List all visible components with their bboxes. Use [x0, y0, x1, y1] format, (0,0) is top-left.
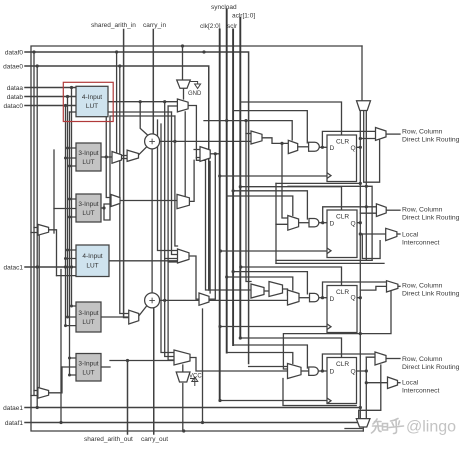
svg-text:LUT: LUT [86, 263, 98, 270]
node datac1/x37 [36, 265, 39, 268]
wire LUT input vertical x69.5 [69, 112, 71, 375]
node syncload y120.6 [225, 119, 228, 122]
wire LUT E out [101, 316, 129, 318]
watermark zhihu logo strokes [372, 419, 404, 434]
wire vertical x185 gate2 to mux c [184, 112, 186, 197]
red highlight box [63, 82, 113, 121]
node LUTB out/x106 [105, 155, 108, 158]
wire gate2 input2 [168, 105, 177, 107]
wire vertical x61 [60, 270, 62, 423]
wire bundle taps to mux d [165, 259, 178, 263]
node aclr y338 [239, 336, 242, 339]
mux mid2 [199, 293, 209, 305]
wire mux e top feed [182, 365, 184, 372]
wire LUT E input stubs [66, 306, 77, 326]
wire bundle v5 x174.9 [175, 116, 178, 246]
wire aclr to FF3 CLR [241, 267, 342, 286]
wire sclr [232, 30, 234, 346]
svg-text:Direct Link Routing: Direct Link Routing [402, 137, 460, 144]
VCC arrow symbol [190, 377, 198, 386]
mux a (pre-adder1 1) [112, 152, 122, 164]
node lutF in3 [68, 374, 71, 377]
svg-text:sclr: sclr [227, 23, 238, 30]
node muxmid1out/x215.3 [214, 152, 217, 155]
node lutE in1 [70, 305, 73, 308]
wire mux b out diagonal to adder1 [139, 147, 148, 156]
svg-text:D: D [330, 145, 335, 152]
wire M4 loop to B1 [359, 365, 381, 419]
out mux L2 [386, 228, 397, 240]
wire dataa [25, 87, 76, 89]
svg-text:Local: Local [402, 380, 419, 387]
node dataf1/x202.5 [201, 421, 204, 424]
wire LUT D out [109, 260, 178, 262]
wire mux d out [189, 256, 199, 299]
wire mux1a out to mux1b [262, 138, 288, 144]
wire mux3c to and3 [299, 297, 310, 299]
node lutB in1 [66, 147, 69, 150]
wire FF4 Q to L4 [366, 382, 387, 384]
wire and4 bypass up to M4 [322, 354, 375, 371]
node clk ff3 [218, 325, 221, 328]
wire dataf1 [25, 422, 358, 424]
wire shared arith to mux e [110, 360, 174, 362]
flip-flop FF1 [327, 135, 357, 182]
wire mux3b to mux3c [283, 289, 288, 295]
svg-text:CLR: CLR [336, 361, 349, 368]
LUT A 4-input [76, 86, 108, 116]
wire mux mid2 out [209, 154, 215, 299]
svg-text:@lingo: @lingo [406, 419, 456, 436]
node dataf0/x33 [32, 50, 35, 53]
svg-text:Direct Link Routing: Direct Link Routing [402, 215, 460, 222]
node m3 loop a [359, 332, 362, 335]
svg-text:carry_in: carry_in [143, 22, 167, 29]
and3 [310, 293, 319, 301]
wire bundle v1 x161.9 [161, 124, 174, 353]
svg-text:CLR: CLR [336, 139, 349, 146]
wire syncload [226, 10, 228, 353]
svg-text:dataf0: dataf0 [5, 50, 23, 57]
svg-text:Q: Q [351, 295, 356, 302]
wire vertical x54 [53, 150, 55, 233]
wire x276 down to FF2 mux [276, 183, 288, 224]
and2 [309, 219, 319, 227]
node dataf0/x116.6 [115, 50, 118, 53]
out mux M4 [375, 352, 386, 365]
wire mux g inputs [31, 391, 38, 396]
wire gnd mux out [183, 88, 185, 99]
wire and1 to FF1 D [320, 146, 328, 148]
wire M2 out [386, 209, 400, 211]
wire vertical x210.1 [209, 162, 211, 294]
wire left feedback vertical x37 [36, 66, 38, 408]
wire LUT A out [108, 101, 177, 103]
wire mux c out up [189, 160, 194, 201]
GND mux [177, 80, 191, 88]
node wrap1 a [359, 182, 362, 185]
node ff2 q [359, 221, 362, 224]
wire T1 right leg long vertical B upper [365, 111, 367, 261]
node and1 out [321, 146, 324, 149]
wire wrap2 under FF1 [288, 186, 372, 260]
node lutC in1 [68, 198, 71, 201]
wire LUT input vertical x67.5 [67, 97, 69, 318]
wire dataf0 stub into mux4 [249, 366, 288, 368]
wire and4 to FF4 D [319, 370, 327, 372]
node sclr y190.8 [232, 189, 235, 192]
wire M3 out [398, 285, 400, 287]
node lutB in3 [68, 165, 71, 168]
node ff3 q loop [359, 296, 362, 299]
bottom mux B1 [356, 419, 370, 427]
mux 3c [288, 290, 300, 305]
node aclr y267 [239, 265, 242, 268]
node adder2out/x164.7 [163, 299, 166, 302]
wire top rail down into T1 [361, 46, 363, 101]
wire datab [25, 96, 76, 98]
svg-text:dataf1: dataf1 [5, 420, 23, 427]
svg-text:CLR: CLR [336, 289, 349, 296]
node wrap x366 [365, 185, 368, 188]
wire FF4 wrap under [283, 379, 356, 406]
node lutE in3 [64, 324, 67, 327]
wire LUT C out branch up to bundle [104, 116, 175, 220]
wire LUT B out branch down to mux c0 [106, 157, 111, 198]
wire x276 down to FF3 [275, 224, 277, 263]
svg-text:syncload: syncload [211, 4, 237, 11]
wire and3 to FF3 D [319, 297, 327, 299]
svg-text:Local: Local [402, 232, 419, 239]
wire mux i out diagonal to adder2 [139, 306, 147, 317]
wire FF1 Q to M1 [357, 139, 376, 148]
mux mid1 [200, 147, 210, 162]
wire FF3 Q to M3 [357, 286, 387, 297]
LUT D 4-input [76, 245, 109, 277]
wire FF4 Q to M4 [357, 357, 375, 371]
node and2 out [321, 221, 324, 224]
wire datac0 [25, 105, 76, 107]
LUT F 3-input [76, 354, 101, 382]
wire L2 loop under FF2 [362, 234, 380, 259]
wire mux mid1 out [210, 153, 220, 155]
svg-text:LUT: LUT [86, 103, 98, 110]
svg-text:dataa: dataa [7, 85, 24, 92]
node LUTC out/x104 [102, 206, 105, 209]
node datac1/x71.5 [70, 265, 73, 268]
svg-text:CLR: CLR [336, 214, 349, 221]
svg-text:Row, Column: Row, Column [402, 356, 443, 363]
bottom labels [84, 436, 168, 443]
wire vcc chain down [182, 384, 184, 432]
mux 1b [288, 140, 297, 153]
node dataf1/x60 [59, 421, 62, 424]
node clk ff2 [219, 249, 222, 252]
svg-text:D: D [330, 369, 335, 376]
node shared arith out tap [126, 359, 129, 362]
node and3 out [321, 296, 324, 299]
svg-text:Q: Q [351, 145, 356, 152]
svg-text:Direct Link Routing: Direct Link Routing [402, 364, 460, 371]
node clk ff1 [218, 174, 221, 177]
wire carry_in [152, 30, 154, 134]
wire syncload branch FF4 to mux4 [227, 353, 293, 364]
mux e [174, 350, 190, 365]
wire L4 out [398, 382, 401, 384]
adder 1 [145, 134, 160, 149]
node and4 out [321, 369, 324, 372]
wire mux mid1 inputs [194, 150, 200, 158]
wire LUT F input stubs [62, 358, 76, 375]
wire clk to FF4 [220, 400, 327, 402]
wire dataf0 [25, 52, 249, 364]
wire clk to FF3 [220, 326, 327, 328]
wire LUT input vertical x65.5 [65, 106, 67, 326]
and4 [309, 367, 319, 375]
svg-text:aclr[1:0]: aclr[1:0] [232, 13, 255, 20]
wire aclr to FF1 CLR [240, 102, 341, 135]
wire datae1 [25, 407, 360, 409]
wire T1 mid leg down [364, 111, 380, 183]
wire feedback vertical x116.6 [117, 52, 128, 156]
svg-text:Interconnect: Interconnect [402, 388, 440, 395]
node datac1/x65.5 [64, 265, 67, 268]
node syncload y277 [225, 275, 228, 278]
wire B1 spur left [345, 428, 362, 430]
wire sclr branch FF2 to and2 [233, 191, 307, 219]
svg-text:carry_out: carry_out [141, 436, 168, 443]
out mux M1 [376, 128, 387, 141]
wire and1 bypass up to M1 [322, 131, 375, 147]
wire clk to FF1 [220, 175, 327, 177]
wire carry_out [153, 308, 155, 434]
wire syncload branch FF1 to mux1b [204, 121, 292, 140]
svg-text:LUT: LUT [82, 159, 94, 166]
left labels [3, 50, 23, 428]
mux 4 [288, 364, 302, 379]
out mux L4 [388, 377, 398, 389]
mux d [178, 249, 190, 263]
node lutF in1 [68, 357, 71, 360]
wire LUT F out [101, 366, 110, 368]
wire datae0 [25, 66, 209, 290]
wire mux a to mux b [122, 158, 128, 160]
mux c [177, 194, 189, 208]
node lutAout/x140.2 [139, 100, 142, 103]
wire bundle v4 x171.5 [172, 112, 178, 255]
node dataa/x71.5 [70, 86, 73, 89]
svg-text:Row, Column: Row, Column [402, 129, 443, 136]
mux h (feedback select top-left) [38, 224, 49, 235]
right labels [402, 129, 460, 395]
top mux T1 [357, 101, 371, 111]
wire sclr branch FF1 to and1 [233, 111, 307, 143]
wire FF1 wrap under [276, 182, 360, 184]
node ff1 q up [359, 137, 362, 140]
flip-flop FF3 [327, 286, 357, 333]
mux 1a [251, 131, 262, 144]
mux 3a [251, 284, 264, 298]
wire left feedback vertical x39 [38, 235, 40, 387]
wire sclr branch FF4 to and4 [233, 345, 307, 368]
svg-text:Interconnect: Interconnect [402, 240, 440, 247]
wire mux1b to and1 [298, 146, 309, 148]
LUT E 3-input [76, 302, 101, 332]
node toprail/x182.5 [181, 44, 184, 47]
wire B1 out to bottom rail [362, 427, 364, 431]
wire adder1 sum out [160, 140, 251, 142]
mux c0 (LUT C select) [111, 195, 120, 207]
wire sclr branch FF3 to and3 [233, 272, 307, 294]
node dataf0 y120.6 [244, 119, 247, 122]
wire M1 out [386, 133, 400, 135]
node lutB in2 [64, 157, 67, 160]
mux b (pre-adder1 2) [127, 150, 138, 161]
wire aclr [239, 18, 241, 338]
svg-text:datae0: datae0 [3, 64, 23, 71]
wire LUT B out [101, 156, 112, 158]
node m2 tap [365, 205, 368, 208]
wire clk to FF2 [220, 250, 327, 252]
svg-text:4-Input: 4-Input [82, 253, 102, 260]
wire vertical x202.5 [202, 309, 204, 423]
wire bundle v0 x158.7 [158, 120, 178, 251]
wire carry chain adder1 to adder2 [151, 149, 153, 293]
wire dataf0 vertical x246 [246, 121, 251, 282]
svg-text:Q: Q [351, 221, 356, 228]
node mux1a out x282 [280, 142, 283, 145]
wire select vertical x282 down to FF2 mux [282, 143, 288, 218]
wire mux c0 out to mux c [120, 200, 177, 202]
LUT C 3-input [76, 194, 101, 222]
node l2 tap [359, 232, 362, 235]
svg-text:datac0: datac0 [3, 103, 23, 110]
wire LUT B out branch up to bundle [106, 112, 171, 157]
node datae0/x37 [36, 64, 39, 67]
wire syncload branch FF3 to mux3c [227, 277, 293, 290]
wire M3 loop under FF3 [283, 289, 391, 369]
node bottomrail x183 [182, 429, 185, 432]
node lutE in2 [66, 316, 69, 319]
wire LUT C input stubs [54, 199, 76, 217]
wire mux3a to mux3b [264, 290, 269, 292]
wire aclr to FF2 CLR [240, 187, 341, 210]
svg-text:VCC: VCC [189, 374, 202, 380]
wire left feedback vertical x34 [33, 52, 35, 395]
wire M4 out [386, 358, 400, 360]
wire datac1 [25, 266, 76, 268]
mux 3b [269, 282, 283, 297]
wire aclr to FF4 CLR [240, 338, 341, 358]
svg-text:datae1: datae1 [3, 405, 23, 412]
svg-text:D: D [330, 221, 335, 228]
svg-text:4-Input: 4-Input [82, 94, 102, 101]
svg-text:GND: GND [188, 91, 202, 97]
wire mux1a top input [246, 133, 251, 135]
node gate2in/x164.7 [163, 100, 166, 103]
wire LUT C out into mux c0 [101, 204, 111, 208]
node adder1out/x174.9 [173, 140, 176, 143]
wire and2 to FF2 D [319, 222, 327, 224]
wire mux g out [49, 367, 62, 393]
node datae0/x119.8 [118, 64, 121, 67]
svg-text:clk[2:0]: clk[2:0] [200, 23, 221, 30]
svg-text:LUT: LUT [82, 210, 94, 217]
wire outer feedback loop top/left/bottom [31, 46, 363, 431]
wire mux h inputs [31, 228, 38, 233]
mux i (pre-adder2) [129, 310, 139, 324]
wire FF2 Q to M2 [357, 213, 376, 223]
node clk ff4 [218, 399, 221, 402]
svg-text:datab: datab [7, 94, 24, 101]
wire mux h out to LUT D [49, 230, 57, 276]
svg-text:Direct Link Routing: Direct Link Routing [402, 291, 460, 298]
wire FF2 wrap under 2 [276, 262, 384, 264]
node dataf0/x204 [202, 50, 205, 53]
node datab/x67.5 [66, 95, 69, 98]
wire bundle v3 x168.1 [168, 106, 174, 360]
out mux M3 [387, 281, 398, 292]
wire clk [219, 30, 221, 401]
node datae1/x37 [36, 406, 39, 409]
gate share (below GND) [177, 99, 188, 112]
node sclr y271.6 [232, 270, 235, 273]
svg-text:3-Input: 3-Input [78, 361, 98, 368]
node ff4 q [365, 369, 368, 372]
svg-text:LUT: LUT [82, 370, 94, 377]
wire mux4 to and4 [301, 370, 309, 372]
wire mux2 to and2 [299, 222, 309, 224]
wire adder1 feed from LUT A out [140, 102, 148, 136]
wire and3 bypass up to M3 [323, 282, 387, 298]
wire LUT B input stubs [66, 148, 77, 166]
svg-text:3-Input: 3-Input [78, 150, 98, 157]
wire shared_arith_out [127, 361, 129, 435]
wire adder2 sum out [160, 299, 288, 301]
wire LUT A 4th input stub [70, 111, 77, 113]
svg-text:Row, Column: Row, Column [402, 207, 443, 214]
out mux M2 [376, 204, 386, 217]
mux g (feedback select bottom-left) [38, 388, 49, 399]
wire gate2 out over to x196.4 [188, 106, 251, 291]
wire and2 bypass up to M2 [323, 207, 377, 223]
node datae1 line A [359, 406, 362, 409]
flip-flop FF2 [327, 210, 357, 258]
node lutD in2 [64, 257, 67, 260]
wire LUT D input stubs [57, 250, 77, 276]
mux 2 [288, 216, 299, 231]
node l4 tap [365, 381, 368, 384]
svg-text:D: D [330, 296, 335, 303]
wire T1 left leg long vertical A [359, 111, 361, 419]
wire vertical B lower [365, 357, 367, 418]
wire L2 out [397, 233, 400, 235]
node aclr y186.7 [239, 185, 242, 188]
node lutD in1 [66, 249, 69, 252]
wire mux e out [190, 358, 288, 372]
svg-text:datac1: datac1 [3, 265, 23, 272]
and1 [309, 142, 320, 151]
top labels [91, 4, 255, 30]
node lutC in3 [68, 216, 71, 219]
wire bundle v2 x164.7 [165, 102, 174, 357]
wire FF2 Q to L2 [360, 233, 385, 235]
svg-text:Row, Column: Row, Column [402, 283, 443, 290]
svg-text:3-Input: 3-Input [78, 201, 98, 208]
svg-text:shared_arith_out: shared_arith_out [84, 436, 133, 443]
GND arrow symbol [190, 82, 200, 89]
adder 2 [145, 293, 160, 308]
